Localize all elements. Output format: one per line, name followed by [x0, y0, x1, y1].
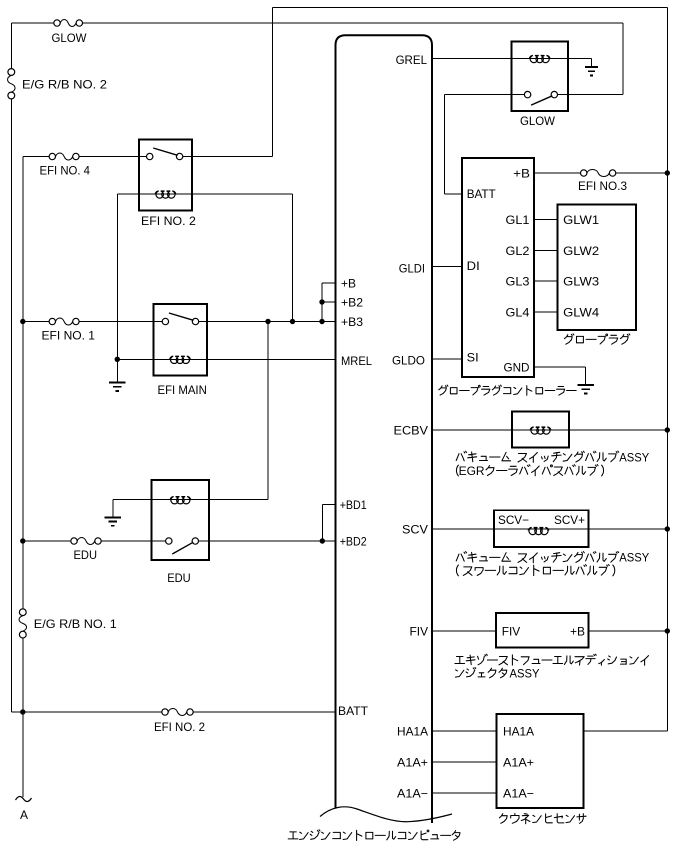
svg-text:EDU: EDU	[167, 571, 191, 585]
svg-text:ASSY: ASSY	[619, 551, 649, 565]
svg-text:E/G R/B NO. 1: E/G R/B NO. 1	[34, 617, 117, 631]
svg-text:EFI NO. 4: EFI NO. 4	[40, 163, 91, 177]
svg-text:+B: +B	[513, 166, 530, 180]
svg-text:EFI NO. 2: EFI NO. 2	[141, 214, 196, 228]
svg-text:ASSY: ASSY	[619, 450, 649, 464]
svg-text:SCV: SCV	[402, 522, 428, 536]
svg-text:GLDI: GLDI	[399, 261, 425, 275]
svg-text:A1A+: A1A+	[397, 755, 428, 769]
svg-text:EGR: EGR	[459, 464, 485, 478]
svg-text:BATT: BATT	[338, 704, 369, 718]
svg-text:+B: +B	[570, 624, 585, 638]
svg-text:GLW4: GLW4	[563, 305, 599, 319]
svg-text:A1A−: A1A−	[503, 786, 534, 800]
svg-text:E/G R/B NO. 2: E/G R/B NO. 2	[22, 77, 107, 91]
svg-text:EFI MAIN: EFI MAIN	[158, 383, 207, 397]
svg-text:GLOW: GLOW	[52, 31, 88, 45]
svg-text:ECBV: ECBV	[394, 423, 429, 437]
svg-text:GL1: GL1	[506, 213, 530, 227]
svg-text:GLOW: GLOW	[520, 114, 556, 128]
svg-text:ASSY: ASSY	[510, 666, 540, 680]
svg-text:GLW3: GLW3	[563, 275, 599, 289]
svg-text:+BD1: +BD1	[340, 498, 367, 512]
svg-text:A1A+: A1A+	[503, 755, 534, 769]
svg-text:+B3: +B3	[341, 315, 363, 329]
svg-text:GL3: GL3	[506, 275, 530, 289]
svg-text:GL4: GL4	[506, 305, 530, 319]
svg-text:FIV: FIV	[410, 624, 429, 638]
svg-text:GND: GND	[504, 360, 530, 374]
svg-text:GLW1: GLW1	[563, 213, 599, 227]
svg-text:+B: +B	[341, 276, 356, 290]
svg-text:SCV+: SCV+	[554, 513, 585, 527]
svg-text:GL2: GL2	[506, 244, 530, 258]
svg-text:SI: SI	[467, 350, 479, 364]
svg-text:+B2: +B2	[341, 295, 363, 309]
svg-text:GLW2: GLW2	[563, 244, 599, 258]
svg-text:GREL: GREL	[396, 53, 428, 67]
svg-text:A: A	[20, 808, 28, 822]
svg-text:HA1A: HA1A	[397, 724, 428, 738]
svg-text:+BD2: +BD2	[340, 534, 367, 548]
svg-text:EFI NO.3: EFI NO.3	[578, 179, 627, 193]
svg-text:EDU: EDU	[74, 548, 98, 562]
svg-text:GLDO: GLDO	[392, 353, 425, 367]
svg-text:BATT: BATT	[467, 187, 497, 201]
svg-text:EFI NO. 1: EFI NO. 1	[42, 328, 96, 342]
svg-text:HA1A: HA1A	[503, 724, 534, 738]
svg-text:MREL: MREL	[341, 354, 372, 368]
svg-text:SCV−: SCV−	[498, 513, 529, 527]
svg-text:EFI NO. 2: EFI NO. 2	[154, 720, 205, 734]
svg-text:FIV: FIV	[502, 624, 521, 638]
svg-text:DI: DI	[467, 259, 480, 273]
svg-text:A1A−: A1A−	[397, 786, 428, 800]
